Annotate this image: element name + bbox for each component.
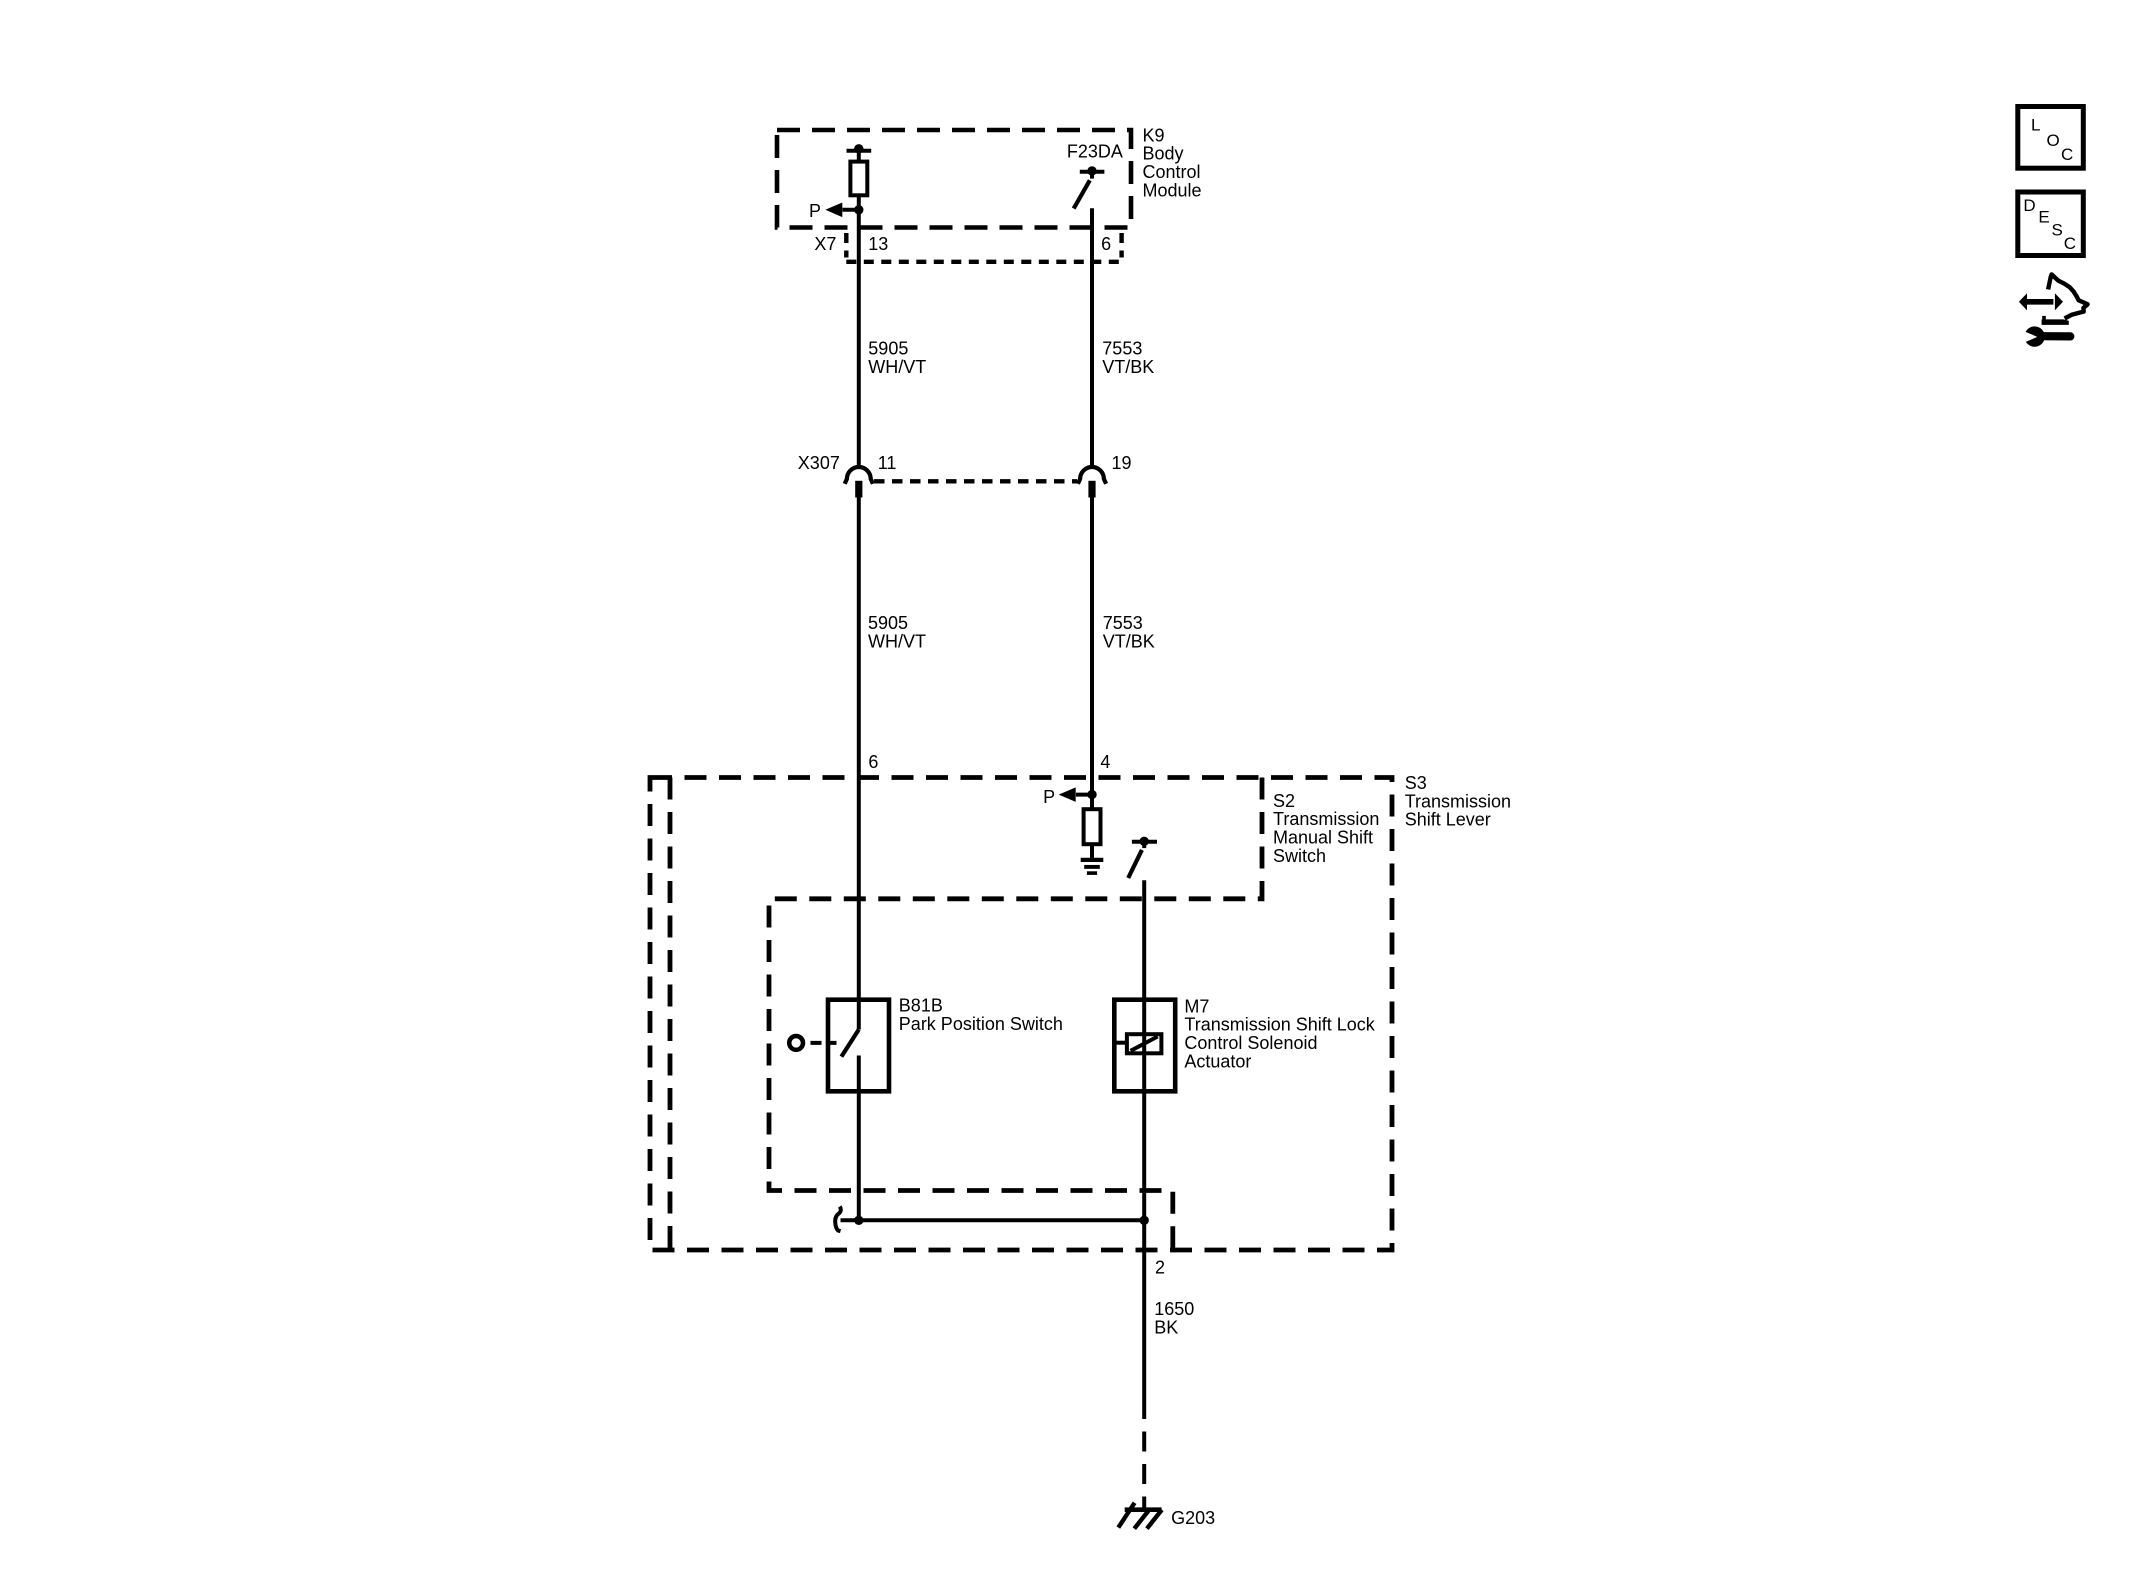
- label K9 Body Control Module: [1143, 125, 1202, 200]
- svg-text:7553: 7553: [1103, 613, 1143, 633]
- svg-text:X7: X7: [814, 234, 836, 254]
- label 7553 VT/BK (upper): [1102, 339, 1154, 377]
- dashed mechanical linkage (B81B): [811, 1041, 837, 1045]
- svg-text:P: P: [809, 201, 821, 221]
- svg-text:VT/BK: VT/BK: [1103, 631, 1155, 651]
- svg-text:WH/VT: WH/VT: [868, 357, 926, 377]
- svg-text:Body: Body: [1143, 144, 1184, 164]
- LOC button box: [2018, 107, 2084, 169]
- ground G203 symbol: [1118, 1503, 1162, 1529]
- wire 1650 BK dashed segment to ground: [1142, 1412, 1146, 1510]
- ground bus wire (horizontal): [841, 1218, 1145, 1222]
- svg-text:Control Solenoid: Control Solenoid: [1184, 1033, 1317, 1053]
- svg-text:5905: 5905: [868, 339, 908, 359]
- svg-text:4: 4: [1100, 752, 1110, 772]
- svg-text:VT/BK: VT/BK: [1102, 357, 1154, 377]
- wire 7553 lower segment: [1090, 498, 1094, 795]
- svg-text:Control: Control: [1143, 162, 1201, 182]
- P signal arrow (K9): [825, 203, 859, 218]
- svg-text:Actuator: Actuator: [1184, 1051, 1251, 1071]
- svg-text:L: L: [2031, 116, 2040, 135]
- label S2 Transmission Manual Shift Switch: [1273, 791, 1379, 866]
- svg-text:Transmission: Transmission: [1405, 791, 1511, 811]
- svg-text:Module: Module: [1143, 180, 1202, 200]
- junction node (S2 P signal): [1087, 790, 1096, 799]
- switch B81B blade: [841, 1030, 858, 1057]
- svg-text:19: 19: [1112, 453, 1132, 473]
- inner dashed wall (S2 left edge): [668, 778, 673, 1251]
- svg-text:Transmission: Transmission: [1273, 809, 1379, 829]
- switch F23DA (inside K9): [1074, 166, 1105, 208]
- splice hook (wire continues): [835, 1207, 841, 1232]
- svg-text:1650: 1650: [1154, 1299, 1194, 1319]
- wire B81B lower contact to splice: [857, 1056, 861, 1221]
- svg-text:11: 11: [878, 453, 897, 473]
- svg-text:B81B: B81B: [899, 996, 943, 1016]
- LOC letters: [2031, 116, 2073, 164]
- wire S2 switch to M7 solenoid: [1142, 880, 1146, 1220]
- svg-text:Manual Shift: Manual Shift: [1273, 828, 1373, 848]
- svg-text:6: 6: [868, 752, 878, 772]
- wire 5905 upper segment: [857, 210, 861, 467]
- label 1650 BK: [1154, 1299, 1194, 1337]
- solenoid M7 Transmission Shift Lock Control box: [1114, 1000, 1175, 1092]
- svg-text:S3: S3: [1405, 773, 1427, 793]
- svg-text:S2: S2: [1273, 791, 1295, 811]
- svg-text:13: 13: [868, 234, 888, 254]
- module K9 Body Control Module dashed box: [777, 130, 1131, 228]
- svg-text:BK: BK: [1154, 1318, 1178, 1338]
- svg-text:K9: K9: [1143, 125, 1165, 145]
- svg-text:M7: M7: [1184, 996, 1209, 1016]
- junction node (K9 P signal): [854, 205, 863, 214]
- wrench icon: [2023, 326, 2070, 346]
- adjust icon double arrow: [2019, 293, 2063, 310]
- DESC letters: [2023, 196, 2076, 253]
- svg-text:X307: X307: [798, 453, 840, 473]
- connector X307 inline (female arc + male pin, left): [845, 467, 873, 498]
- svg-text:6: 6: [1101, 234, 1111, 254]
- label B81B Park Position Switch: [899, 996, 1063, 1034]
- connector X307 inline (female arc + male pin, right): [1078, 467, 1106, 498]
- svg-text:Switch: Switch: [1273, 846, 1326, 866]
- P signal arrow (S2): [1059, 787, 1092, 802]
- svg-text:Shift Lever: Shift Lever: [1405, 810, 1491, 830]
- junction node (B81B to bus): [854, 1216, 863, 1225]
- wire 5905 lower segment: [857, 498, 861, 1030]
- svg-text:7553: 7553: [1102, 339, 1142, 359]
- label 7553 VT/BK (lower): [1103, 613, 1155, 651]
- svg-text:5905: 5905: [868, 613, 908, 633]
- connector X7 dotted outline: [846, 233, 1121, 262]
- switch S2 manual shift contact: [1128, 837, 1157, 878]
- switch S2 box outline (right edge + internal assembly boundary): [769, 778, 1262, 1251]
- junction node (M7 to bus): [1140, 1216, 1149, 1225]
- svg-text:C: C: [2064, 234, 2076, 253]
- svg-text:E: E: [2038, 207, 2049, 226]
- solenoid coil element (M7): [1116, 1034, 1162, 1053]
- label 5905 WH/VT (lower): [868, 613, 926, 651]
- svg-text:2: 2: [1155, 1257, 1165, 1277]
- resistor (S2 pull-down): [1084, 795, 1101, 858]
- X307 dashed harness jumper: [874, 479, 1077, 483]
- svg-text:O: O: [2047, 131, 2060, 150]
- label 5905 WH/VT (upper): [868, 339, 926, 377]
- adjust icon lower bar: [2042, 316, 2069, 325]
- DESC button box: [2018, 192, 2084, 256]
- switch B81B Park Position Switch box: [828, 1000, 889, 1092]
- svg-text:Park Position Switch: Park Position Switch: [899, 1014, 1063, 1034]
- svg-text:F23DA: F23DA: [1067, 142, 1123, 162]
- svg-text:Transmission Shift Lock: Transmission Shift Lock: [1184, 1015, 1375, 1035]
- svg-text:WH/VT: WH/VT: [868, 631, 926, 651]
- wire 7553 upper segment: [1090, 208, 1094, 466]
- svg-text:S: S: [2052, 220, 2063, 239]
- svg-text:C: C: [2061, 145, 2073, 164]
- assembly S3 Transmission Shift Lever dashed box: [650, 778, 1392, 1251]
- adjust icon outline shape: [2048, 274, 2088, 318]
- wire 1650 BK solid segment: [1142, 1220, 1146, 1412]
- svg-text:P: P: [1043, 787, 1055, 807]
- label S3 Transmission Shift Lever: [1405, 773, 1511, 830]
- label M7 Transmission Shift Lock Control Solenoid Actuator: [1184, 996, 1375, 1071]
- svg-text:D: D: [2023, 196, 2035, 215]
- svg-text:G203: G203: [1171, 1508, 1215, 1528]
- resistor (BCM driver, pin 13 branch): [847, 144, 872, 210]
- actuator circle (B81B): [789, 1036, 803, 1050]
- ground (S2 internal signal ground): [1081, 860, 1104, 873]
